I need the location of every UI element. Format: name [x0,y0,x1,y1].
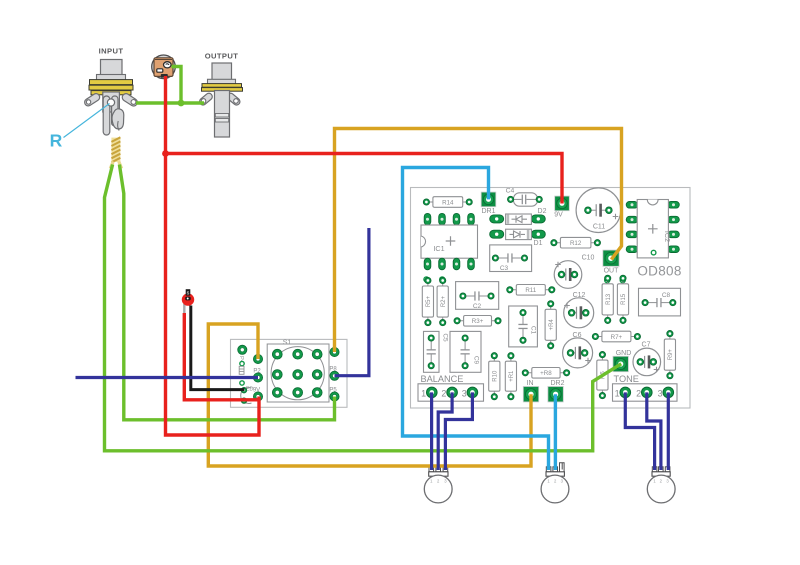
wire blue DR1 to drive pot lug1 [403,168,549,471]
capacitor C5 [424,331,449,372]
svg-text:R15: R15 [621,293,627,305]
capacitor C3 [490,245,532,272]
footswitch board outline [231,339,348,407]
wire red battery positive [166,76,260,435]
pad DR1 [481,192,496,215]
resistor R13 [602,275,613,323]
resistor R6 [597,352,608,399]
input jack J1 [83,60,138,136]
svg-text:R5+: R5+ [426,295,432,307]
capacitor C4 [506,188,543,207]
svg-text:5: 5 [187,291,190,297]
wire navy to P2 [76,376,259,379]
capacitor C8 [639,288,681,316]
svg-text:INPUT: INPUT [99,47,124,56]
wire navy TONE pad2 to pot lug2 [647,392,661,470]
svg-text:C5: C5 [442,333,449,342]
wire blue DR2 to drive pot lug2 [554,394,557,470]
wire navy BALANCE pad2 to pot lug2 [438,392,452,470]
wire gold IN to P1 [208,324,531,466]
svg-text:1: 1 [615,389,620,399]
svg-text:C2: C2 [473,303,482,310]
pad 9V (S1) [253,388,263,402]
svg-text:9V: 9V [554,212,563,219]
wire green jack tip link [136,101,204,104]
resistor R2 [437,277,448,325]
svg-text:IC2: IC2 [663,231,672,242]
wire red branch to PCB 9V [166,154,563,204]
pad P5 [329,388,339,402]
svg-text:IC1: IC1 [433,244,444,253]
PCB board outline [411,188,691,409]
svg-text:C6: C6 [573,332,582,339]
svg-text:R11: R11 [525,287,536,294]
svg-text:R3+: R3+ [472,318,484,325]
diode D1 [490,229,546,247]
svg-text:R12: R12 [570,240,582,247]
via pads below IC1 [424,277,445,282]
pad P7 [330,347,339,356]
svg-text:R2+: R2+ [441,295,447,307]
svg-text:+R4: +R4 [549,319,555,331]
LED D5 [182,289,194,306]
switch S1 footprint [267,344,329,402]
pad OUT [603,250,619,274]
callout leader line to input jack ring [64,104,110,138]
svg-text:C9: C9 [473,356,480,365]
pad 9V (PCB) [554,196,569,218]
svg-text:R10: R10 [493,370,499,382]
svg-text:R13: R13 [606,293,612,305]
potentiometer TONE (VR3) [647,467,675,503]
diode D2 [490,208,547,224]
resistor R12 [551,237,601,248]
resistor R4 [545,301,556,349]
svg-text:R14: R14 [442,199,454,206]
capacitor C2 [456,282,499,310]
pad P2 [253,369,262,383]
resistor R1 [505,353,516,400]
connector BALANCE [418,384,484,401]
via pads below OUT [605,278,626,283]
resistor R10 [489,353,500,400]
electrolytic capacitor C7 [633,342,661,376]
junction green at output link [178,100,185,107]
pad DR2 [548,380,565,402]
resistor R14 [423,197,472,208]
svg-text:C8: C8 [662,292,671,299]
wire navy TONE pad3 to pot lug3 [667,392,670,470]
resistor R9 [664,331,675,379]
wire black LED cathode to S1 LED pad [191,306,245,390]
op-amp IC2 [626,200,679,258]
via on S1 board 2 [240,381,244,385]
svg-text:2: 2 [441,389,446,399]
electrolytic capacitor C6 [563,332,593,368]
svg-text:R9+: R9+ [668,349,674,361]
svg-text:+R8: +R8 [540,370,552,377]
svg-text:IN: IN [527,380,534,387]
resistor R15 [617,275,628,323]
potentiometer DRIVE (VR2) [541,463,569,503]
wire navy BALANCE pad1 to pot lug1 [430,392,433,470]
svg-text:D2: D2 [538,208,547,215]
pad IN [523,380,538,402]
LED footprint on S1 [241,387,254,404]
svg-text:R7+: R7+ [611,334,623,341]
pad P8 [329,367,339,381]
wire green battery branch [172,67,182,104]
svg-text:3: 3 [658,389,663,399]
wire gold OUT to P7 [335,129,622,353]
output jack J2 [198,63,242,137]
LED resistor footprint [239,366,244,374]
wire green sleeve to GND [105,165,622,451]
electrolytic capacitor C10 [554,255,594,289]
svg-text:TONE: TONE [614,374,639,384]
svg-text:C7: C7 [642,342,651,349]
svg-text:DR1: DR1 [481,208,495,215]
svg-text:OUTPUT: OUTPUT [205,52,239,61]
wire green ring to P5 [119,165,334,420]
wire navy TONE pad1 to pot lug1 [625,392,654,470]
resistor R7 [592,331,640,342]
svg-text:C1: C1 [530,326,537,335]
svg-text:D1: D1 [534,240,543,247]
twisted pair from input jack [110,137,121,168]
svg-text:C3: C3 [500,265,509,272]
wire red LED anode to S1 9V [184,313,258,400]
battery snap B1 [152,55,176,79]
pad GND [613,350,631,372]
potentiometer BALANCE (VR1) [424,467,452,503]
svg-text:DR2: DR2 [550,380,564,387]
LED D5 legs [183,304,185,314]
resistor R3 [454,316,501,327]
svg-text:2: 2 [636,389,641,399]
connector TONE [613,384,678,401]
svg-text:C4: C4 [506,188,515,195]
svg-text:+R1: +R1 [509,370,515,382]
svg-text:R: R [50,131,63,151]
wire navy BALANCE pad3 to pot lug3 [445,392,472,470]
pad P4 [238,345,247,364]
electrolytic capacitor C12 [564,292,594,328]
pad P1 [253,354,262,363]
capacitor C9 [450,331,481,372]
electrolytic capacitor C11 [576,188,621,233]
resistor R11 [507,285,555,296]
svg-text:S1: S1 [283,340,292,347]
resistor R8 [522,368,570,379]
wire navy to P8 [335,228,369,376]
svg-text:GND: GND [616,350,632,357]
svg-text:C10: C10 [582,255,595,262]
via on S1 board [240,361,244,365]
junction red at battery line [162,150,169,157]
capacitor C1 [509,306,538,347]
resistor R5 [422,277,433,325]
svg-text:C12: C12 [573,292,586,299]
svg-text:1: 1 [421,389,426,399]
op-amp IC1 [421,213,478,269]
svg-text:OUT: OUT [604,268,620,275]
svg-text:BALANCE: BALANCE [421,374,464,384]
svg-text:OD808: OD808 [637,264,681,279]
svg-text:C11: C11 [593,224,605,231]
svg-text:3: 3 [462,389,467,399]
